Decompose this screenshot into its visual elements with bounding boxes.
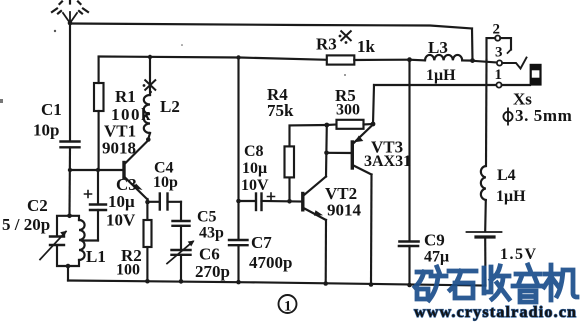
- svg-text:100k: 100k: [111, 105, 152, 124]
- jack terminal 1: [496, 82, 501, 87]
- label plug size: [503, 106, 572, 126]
- svg-text:C7: C7: [251, 233, 272, 252]
- wire battery plus horizontal: [374, 84, 497, 86]
- capacitor C8: [239, 193, 303, 210]
- inductor L1: [68, 216, 85, 266]
- wire top rail right drop: [471, 29, 474, 61]
- svg-text:10V: 10V: [106, 211, 136, 230]
- svg-text:43p: 43p: [199, 225, 224, 242]
- battery 1.5V: [467, 232, 502, 286]
- node VT3 base tee: [324, 151, 329, 156]
- svg-text:1μH: 1μH: [496, 188, 526, 205]
- inductor L3: [410, 55, 473, 61]
- svg-text:www.crystalradio.cn: www.crystalradio.cn: [414, 304, 577, 321]
- svg-text:L4: L4: [497, 167, 516, 184]
- capacitor C7: [229, 240, 248, 282]
- svg-text:9014: 9014: [327, 201, 362, 220]
- resistor R1: [94, 57, 104, 170]
- svg-text:R3: R3: [316, 35, 337, 54]
- node C6 ground: [179, 279, 184, 284]
- wire battery feed vertical: [485, 60, 488, 166]
- svg-text:100: 100: [116, 262, 140, 279]
- mark R3 asterisk: [339, 31, 352, 44]
- wire VT2 emitter down: [325, 220, 327, 284]
- jack terminal 2: [495, 36, 500, 41]
- capacitor C3: [83, 170, 106, 241]
- svg-text:10V: 10V: [241, 177, 269, 194]
- wire VT1 base: [70, 169, 123, 171]
- svg-text:R1: R1: [115, 87, 136, 106]
- capacitor C1: [61, 142, 80, 148]
- capacitor C4: [148, 194, 182, 210]
- node decoupling vertical tee: [236, 55, 240, 59]
- svg-text:L2: L2: [160, 97, 180, 116]
- resistor R5: [327, 120, 373, 129]
- node R3 right / L3 left: [407, 57, 412, 62]
- node antenna junction: [68, 21, 73, 26]
- watermark chinese characters: [415, 265, 577, 302]
- svg-text:C2: C2: [27, 196, 48, 215]
- node L2 bottom / VT1 collector: [146, 137, 151, 142]
- figure number 1: [279, 295, 297, 315]
- wire antenna down to C1: [69, 24, 71, 142]
- wire VT3 emitter node up: [373, 85, 374, 124]
- svg-text:L1: L1: [86, 247, 106, 266]
- plug Xs body: [530, 64, 542, 86]
- node L2 top tee: [148, 55, 152, 59]
- svg-text:C8: C8: [244, 143, 264, 160]
- node R5 left: [324, 123, 329, 128]
- node base tee: [68, 168, 72, 172]
- svg-text:2: 2: [493, 22, 501, 38]
- svg-text:75k: 75k: [267, 101, 294, 120]
- svg-text:1k: 1k: [357, 37, 376, 56]
- svg-text:1μH: 1μH: [426, 67, 456, 84]
- svg-text:3: 3: [495, 45, 503, 61]
- svg-text:C6: C6: [199, 245, 220, 264]
- svg-text:1.5V: 1.5V: [500, 246, 538, 263]
- node L3 right: [470, 58, 475, 63]
- wire bottom rail: [68, 281, 486, 286]
- node C9 ground: [407, 283, 412, 288]
- svg-text:47μ: 47μ: [424, 249, 449, 266]
- svg-text:10p: 10p: [153, 174, 178, 191]
- svg-text:4700p: 4700p: [249, 253, 292, 272]
- node VT2 emitter ground: [323, 281, 328, 286]
- transistor VT2: [303, 177, 326, 221]
- svg-text:1: 1: [495, 67, 503, 83]
- wire decoupling vertical: [237, 58, 239, 240]
- svg-text:1: 1: [284, 299, 292, 315]
- svg-text:C1: C1: [41, 100, 62, 119]
- resistor R2: [144, 202, 152, 281]
- svg-text:5 / 20p: 5 / 20p: [2, 215, 50, 234]
- wire C1 to tank top: [68, 148, 71, 216]
- node R5 right / VT3 emitter: [371, 122, 376, 127]
- svg-text:270p: 270p: [195, 262, 230, 281]
- capacitor C6 variable: [167, 226, 195, 281]
- resistor R3: [327, 55, 410, 64]
- wire VT2 collector up: [325, 125, 328, 177]
- svg-text:C5: C5: [197, 209, 217, 226]
- transistor VT3: [352, 125, 373, 175]
- svg-text:10μ: 10μ: [242, 160, 267, 177]
- wire VT3 collector down: [370, 175, 373, 285]
- node C7 ground: [236, 280, 241, 285]
- speck marks: [0, 30, 346, 103]
- wire jack 2 right stub: [500, 38, 511, 49]
- wire top rail: [70, 24, 472, 29]
- capacitor C5: [173, 202, 190, 226]
- svg-text:10p: 10p: [33, 121, 59, 140]
- node tank bottom: [66, 264, 71, 269]
- inductor L4: [481, 166, 486, 231]
- svg-text:9018: 9018: [102, 139, 136, 158]
- svg-text:3AX31: 3AX31: [364, 153, 411, 170]
- node VT1 emitter: [145, 200, 150, 205]
- wire jack 1 to plug: [502, 84, 530, 86]
- wire tank bottom to ground rail: [67, 266, 69, 281]
- jack 2 contact tick: [508, 50, 512, 54]
- svg-text:3. 5mm: 3. 5mm: [515, 106, 572, 125]
- node C8 tee: [236, 199, 241, 204]
- node R2 ground: [145, 279, 150, 284]
- tank top node: [67, 214, 72, 219]
- wire VT3 base: [327, 152, 352, 154]
- node R1 bottom / C3 top: [96, 168, 100, 172]
- svg-text:C9: C9: [424, 231, 445, 250]
- capacitor C2 variable: [40, 216, 70, 266]
- antenna: [52, 1, 88, 24]
- resistor R4: [285, 125, 327, 201]
- svg-text:300: 300: [336, 102, 360, 119]
- wire jack terminal 3: [473, 61, 498, 63]
- mark R1 asterisk: [143, 80, 156, 94]
- wire C9 vertical: [408, 60, 410, 241]
- transistor VT1: [124, 141, 148, 203]
- jack spring contact: [502, 58, 526, 69]
- capacitor C9: [399, 242, 419, 286]
- wire jack 2 left stub: [487, 38, 496, 60]
- jack terminal 3: [497, 60, 502, 65]
- inductor L2: [144, 57, 150, 139]
- svg-text:10μ: 10μ: [108, 192, 135, 211]
- node VT3 collector ground: [369, 282, 374, 287]
- node R4 bottom / VT2 base: [287, 199, 292, 204]
- svg-text:L3: L3: [428, 38, 448, 57]
- wire supply sub-rail: [99, 57, 327, 60]
